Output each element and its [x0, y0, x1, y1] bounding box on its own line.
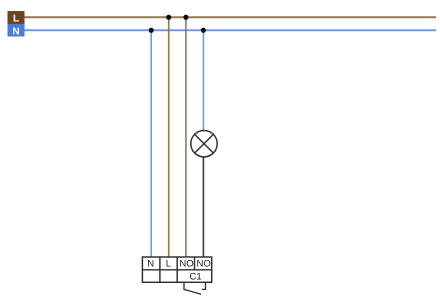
wire neutral to lamp (blue vertical) — [202, 30, 204, 131]
svg-text:L: L — [166, 259, 171, 270]
wire phase feed to terminal L (brown vertical) — [168, 17, 170, 257]
node junction L bus / L feed — [166, 15, 171, 20]
switch contact C1 (normally open) — [184, 282, 206, 294]
neutral terminal N — [8, 24, 25, 38]
svg-text:N: N — [12, 27, 19, 38]
lamp E1 — [191, 131, 217, 157]
node junction L bus / NO feed — [183, 15, 188, 20]
wire phase to terminal NO (brown vertical) — [185, 17, 187, 257]
wire L bus (brown) — [25, 16, 437, 18]
terminal block C1 outline — [142, 257, 211, 282]
node junction N bus / N feed — [149, 28, 154, 33]
svg-text:NO: NO — [196, 259, 210, 270]
node junction N bus / lamp wire — [201, 28, 206, 33]
svg-text:C1: C1 — [190, 272, 202, 283]
svg-text:N: N — [147, 259, 154, 270]
wire neutral feed to terminal N (blue vertical) — [150, 30, 152, 257]
wire N bus (blue) — [25, 29, 437, 31]
svg-text:L: L — [13, 14, 19, 25]
phase terminal L — [8, 11, 25, 25]
svg-text:NO: NO — [179, 259, 193, 270]
wire lamp to terminal NO (black vertical) — [202, 157, 204, 258]
